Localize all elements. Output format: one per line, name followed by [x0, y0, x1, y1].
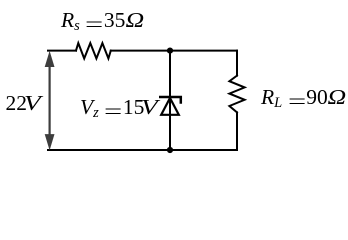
value label Vz = 15V — [80, 97, 154, 122]
wire left branch / voltage arrow shaft (gray) — [49, 58, 51, 140]
wire bottom — [48, 149, 237, 151]
voltage arrow head down — [45, 134, 55, 150]
wire right branch upper — [236, 51, 238, 76]
wire middle branch (zener branch) — [169, 51, 171, 150]
voltage arrow head up — [45, 51, 55, 67]
value label 22V (source voltage) — [6, 93, 38, 115]
wire top-left segment — [48, 50, 76, 52]
node A top junction dot — [167, 48, 173, 54]
value label Rs = 35 Ohm — [61, 10, 142, 35]
wire top: from left corner to right corner with resistor Rs gap — [48, 43, 245, 150]
zener anode triangle — [161, 98, 179, 115]
zener cathode bar with right tab — [159, 97, 181, 104]
node B bottom junction dot — [167, 147, 173, 153]
zener diode DZ — [159, 97, 181, 115]
wire right branch lower — [236, 112, 238, 150]
resistor RL — [229, 76, 244, 113]
resistor Rs — [76, 43, 111, 58]
value label RL = 90 Ohm — [261, 87, 345, 112]
wire top-mid segment — [111, 50, 237, 52]
